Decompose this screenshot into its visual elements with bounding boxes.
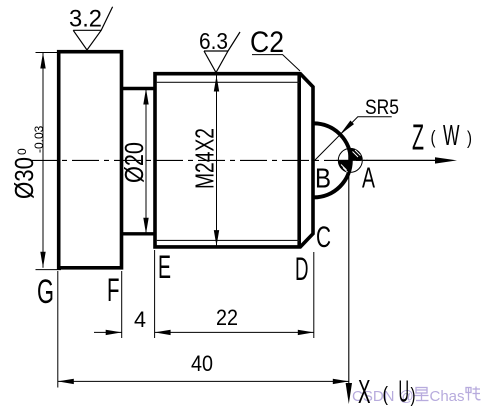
chamfer label C2 — [250, 26, 300, 71]
svg-text:4: 4 — [134, 307, 146, 332]
svg-text:Z: Z — [412, 117, 424, 158]
roughness symbol 3.2 — [69, 6, 113, 51]
part outline: Ø30 cylinder — [59, 52, 122, 268]
svg-text:Ø30: Ø30 — [9, 157, 39, 199]
Z axis — [363, 117, 472, 164]
svg-text:W: W — [443, 120, 460, 152]
dimension 40 — [58, 271, 349, 388]
svg-text:C2: C2 — [250, 26, 284, 59]
svg-text:E: E — [158, 249, 171, 285]
dimension 4 — [94, 271, 146, 338]
svg-text:): ) — [467, 128, 472, 148]
X axis — [346, 147, 416, 410]
svg-text:Chas: Chas — [430, 388, 465, 405]
svg-text:X: X — [358, 373, 371, 410]
point A marker — [336, 148, 365, 172]
svg-text:M24X2: M24X2 — [190, 128, 220, 189]
centerline — [30, 159, 368, 161]
svg-text:SR5: SR5 — [365, 96, 399, 119]
roughness symbol 6.3 — [199, 28, 240, 73]
svg-text:A: A — [362, 163, 375, 195]
svg-text:G: G — [37, 273, 54, 311]
dimension M24X2 — [190, 76, 220, 247]
dimension 22 — [155, 250, 314, 338]
dimension Ø20 — [119, 89, 149, 234]
watermark CSDN — [352, 387, 481, 406]
svg-text:(: ( — [383, 384, 389, 406]
svg-text:0: 0 — [15, 148, 29, 155]
thread section M24 outline with chamfer — [155, 74, 313, 247]
SR5 label with leader — [315, 96, 399, 160]
svg-text:(: ( — [431, 128, 436, 148]
svg-text:3.2: 3.2 — [69, 6, 102, 33]
svg-text:40: 40 — [191, 351, 213, 376]
svg-text:B: B — [315, 163, 331, 194]
dimension Ø30 with tolerance — [9, 53, 61, 270]
svg-text:): ) — [411, 385, 416, 407]
svg-text:-0.03: -0.03 — [32, 125, 46, 153]
thread root lines — [157, 82, 300, 240]
svg-text:D: D — [295, 251, 309, 287]
svg-text:6.3: 6.3 — [199, 28, 228, 54]
svg-text:C: C — [316, 221, 331, 254]
svg-text:F: F — [107, 272, 120, 308]
neck Ø20 — [122, 89, 156, 234]
svg-text:22: 22 — [216, 305, 238, 330]
sphere arc SR5 — [314, 123, 351, 197]
svg-text:U: U — [399, 374, 410, 409]
svg-text:Ø20: Ø20 — [119, 142, 149, 183]
